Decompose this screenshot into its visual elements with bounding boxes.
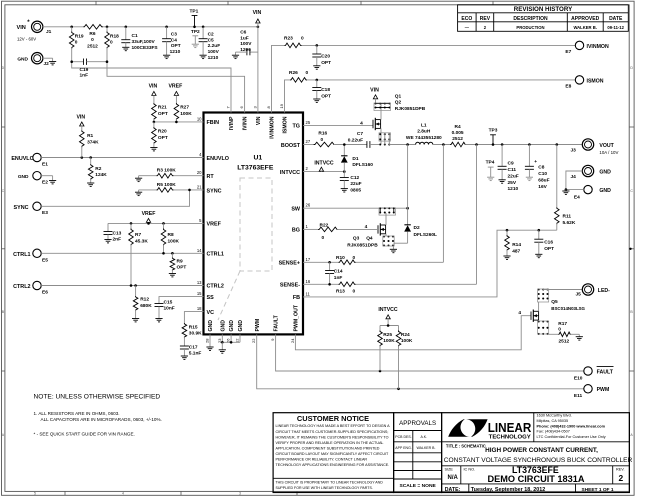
svg-text:09-11-12: 09-11-12 — [607, 25, 624, 30]
svg-text:IVINMON: IVINMON — [270, 116, 276, 138]
node VIN flag above R21 — [149, 84, 158, 96]
svg-text:R4: R4 — [455, 124, 461, 130]
svg-text:R15: R15 — [189, 324, 198, 330]
svg-text:14: 14 — [197, 248, 202, 253]
capacitor C9 C11 22uF output — [498, 145, 519, 193]
svg-text:1nF: 1nF — [334, 275, 343, 281]
ground at pins 23 26 12 — [219, 349, 226, 351]
svg-text:A.K.: A.K. — [421, 435, 428, 439]
svg-text:22uF: 22uF — [508, 173, 519, 179]
capacitor C19 1nF — [70, 59, 108, 79]
svg-text:R20: R20 — [158, 129, 167, 135]
svg-text:THIS CIRCUIT IS PROPRIETARY TO: THIS CIRCUIT IS PROPRIETARY TO LINEAR TE… — [276, 481, 384, 485]
wire VREF net — [108, 222, 204, 224]
svg-text:1nF: 1nF — [80, 73, 89, 79]
svg-text:C14: C14 — [334, 269, 343, 275]
svg-text:J1: J1 — [46, 29, 52, 35]
svg-text:* - SEE QUICK START GUIDE FOR: * - SEE QUICK START GUIDE FOR VIN RANGE. — [34, 431, 135, 436]
capacitor C16 OPT — [534, 230, 554, 254]
svg-text:APPROVALS: APPROVALS — [399, 420, 436, 427]
svg-text:DATE:: DATE: — [445, 487, 461, 493]
svg-text:Phone: (408)432-1900 www.line: Phone: (408)432-1900 www.linear.com — [537, 424, 606, 428]
svg-text:GND: GND — [18, 174, 29, 180]
svg-text:OPT: OPT — [321, 60, 331, 66]
resistor R13 0 — [336, 282, 356, 295]
wire PWM net — [257, 334, 584, 388]
testpoint TP3 — [489, 127, 498, 144]
resistor R19 — [69, 27, 84, 49]
wire GND pin 28 — [209, 334, 211, 347]
svg-text:ECO: ECO — [461, 16, 472, 22]
svg-text:VREF: VREF — [168, 84, 182, 90]
svg-text:26: 26 — [306, 203, 311, 208]
resistor R7 45.3K — [129, 223, 149, 245]
resistor R20 OPT — [152, 122, 168, 148]
ground at R9 — [169, 273, 176, 275]
terminal E8 ISMON — [565, 76, 603, 90]
svg-text:LED-: LED- — [598, 288, 610, 294]
node INTVCC flag above R25 R24 — [378, 307, 398, 319]
svg-text:25: 25 — [306, 120, 311, 125]
svg-text:IVINN: IVINN — [243, 116, 249, 130]
wire IVINP kelvin sense — [72, 48, 231, 113]
resistor R23 0 — [284, 36, 304, 48]
svg-text:INTVCC: INTVCC — [314, 161, 334, 167]
svg-text:100V: 100V — [240, 41, 252, 47]
svg-text:4: 4 — [360, 121, 363, 127]
svg-text:20: 20 — [197, 170, 202, 175]
svg-text:0: 0 — [306, 70, 309, 76]
resistor R18 — [105, 27, 119, 49]
svg-text:FAULT: FAULT — [597, 369, 614, 375]
svg-text:CONSTANT VOLTAGE SYNCHRONOUS B: CONSTANT VOLTAGE SYNCHRONOUS BUCK CONTRO… — [444, 457, 633, 464]
svg-text:TECHNOLOGY APPLICATIONS ENGINE: TECHNOLOGY APPLICATIONS ENGINEERING FOR … — [276, 463, 390, 467]
Linear Technology logo — [448, 419, 532, 440]
svg-text:NOTE: UNLESS OTHERWISE SPECIFI: NOTE: UNLESS OTHERWISE SPECIFIED — [34, 393, 161, 400]
resistor R26 0 — [289, 70, 309, 82]
svg-text:2.2uF: 2.2uF — [208, 43, 221, 49]
svg-text:R21: R21 — [158, 105, 167, 111]
diode D2 DFLS260L freewheel — [404, 225, 437, 243]
ground at J4 E4 — [565, 190, 567, 191]
wire GND pins 23 26 12 — [221, 334, 223, 342]
svg-text:100K: 100K — [168, 238, 180, 244]
svg-text:CIRCUIT THAT MEETS CUSTOMER-SU: CIRCUIT THAT MEETS CUSTOMER-SUPPLIED SPE… — [276, 430, 389, 434]
node VREF flag at pin 5 — [142, 211, 156, 223]
svg-text:25V: 25V — [508, 180, 517, 186]
svg-text:APPLICATION. COMPONENT SUBSTI: APPLICATION. COMPONENT SUBSTITUTION AND … — [276, 446, 380, 450]
svg-text:C19: C19 — [80, 67, 89, 73]
svg-text:E5: E5 — [42, 257, 48, 263]
svg-text:30.9K: 30.9K — [189, 331, 202, 337]
wire VIN pin to bus — [257, 23, 259, 113]
ground at R12 — [132, 318, 139, 320]
ground at R2 — [87, 182, 94, 184]
svg-text:RJK0851DPB: RJK0851DPB — [395, 106, 426, 112]
svg-text:J3: J3 — [571, 147, 577, 153]
terminal E3 SYNC — [14, 202, 49, 216]
capacitor C1 33uF input bulk — [121, 27, 158, 51]
svg-text:16V: 16V — [538, 184, 547, 190]
svg-text:VOUT: VOUT — [599, 143, 614, 149]
capacitor C14 1nF sense filter — [325, 262, 343, 284]
svg-text:FBIN: FBIN — [207, 120, 220, 126]
svg-text:0: 0 — [75, 40, 78, 46]
svg-text:J2: J2 — [44, 61, 50, 67]
ground at C3 C4 — [163, 54, 170, 56]
wire ENUVLO net — [41, 157, 203, 159]
svg-text:100K: 100K — [383, 338, 395, 344]
svg-text:R1: R1 — [87, 133, 93, 139]
svg-text:E1: E1 — [42, 161, 48, 167]
ground at C1 — [122, 46, 129, 48]
wire VOUT rail — [465, 144, 582, 146]
ground at E2 — [49, 180, 56, 182]
svg-text:REV: REV — [480, 16, 491, 22]
svg-text:L1: L1 — [421, 122, 427, 128]
ground at C17 — [181, 355, 188, 357]
svg-text:27: 27 — [306, 139, 311, 144]
svg-text:Fax: (408)434-0507: Fax: (408)434-0507 — [537, 430, 570, 434]
wire Q5 source pins to R17 — [538, 320, 540, 322]
svg-text:R9: R9 — [177, 258, 183, 264]
svg-text:5: 5 — [34, 492, 36, 496]
resistor R6 input shunt — [83, 25, 103, 50]
svg-text:DATE: DATE — [609, 16, 623, 22]
svg-text:OPT: OPT — [177, 265, 187, 271]
svg-text:R22: R22 — [320, 223, 329, 229]
svg-text:PWM_OUT: PWM_OUT — [294, 304, 300, 331]
svg-text:R5 100K: R5 100K — [157, 182, 176, 188]
resistor R10 0 — [336, 255, 356, 264]
svg-text:D1: D1 — [352, 156, 358, 162]
capacitor C8 C10 68uF output polarized — [525, 145, 550, 190]
svg-text:0: 0 — [558, 326, 561, 332]
svg-text:C18: C18 — [321, 87, 330, 93]
svg-text:VIN: VIN — [149, 84, 158, 90]
terminal E1 ENUVLO — [11, 153, 48, 167]
svg-text:C8: C8 — [538, 165, 544, 171]
node VIN flag above R1 — [76, 115, 85, 126]
terminal E5 CTRL1 — [13, 249, 48, 263]
svg-text:HOWEVER, IT REMAINS THE CUSTOM: HOWEVER, IT REMAINS THE CUSTOMER'S RESPO… — [276, 435, 389, 439]
capacitor C3 C4 OPT — [162, 27, 181, 55]
svg-text:CTRL1: CTRL1 — [13, 252, 30, 258]
svg-text:R2: R2 — [95, 166, 101, 172]
ground at TP2 — [192, 43, 199, 45]
resistor R9 OPT — [170, 253, 186, 273]
title block — [442, 413, 630, 493]
svg-text:0: 0 — [91, 37, 94, 43]
svg-text:U1: U1 — [253, 155, 262, 162]
connector J4 GND jack — [571, 165, 612, 180]
svg-text:R7: R7 — [135, 232, 141, 238]
svg-text:C1: C1 — [132, 33, 138, 39]
capacitor C15 10nF at SS — [155, 297, 204, 319]
capacitor C12 22uF INTVCC — [340, 172, 362, 194]
svg-text:R17: R17 — [558, 321, 567, 327]
svg-text:1630 McCarthy Blvd.: 1630 McCarthy Blvd. — [537, 414, 572, 418]
capacitor C13 2nF — [104, 223, 122, 242]
ground at R3 — [138, 176, 140, 179]
svg-text:SCALE = NONE: SCALE = NONE — [399, 483, 436, 489]
svg-text:VERIFY PROPER AND RELIABLE OPE: VERIFY PROPER AND RELIABLE OPERATION IN … — [276, 441, 384, 445]
node VREF flag above R27 — [168, 84, 182, 96]
svg-text:C3: C3 — [171, 32, 177, 38]
wire SYNC net — [41, 190, 189, 206]
svg-text:PWM: PWM — [597, 387, 610, 393]
svg-text:OPT: OPT — [158, 111, 168, 117]
svg-text:RJK0851DPB: RJK0851DPB — [347, 243, 378, 249]
wire Q3 Q4 source pins to ground node — [385, 234, 387, 236]
resistor R27 100K — [174, 95, 192, 122]
wire FAULT net — [276, 334, 584, 371]
svg-text:45.3K: 45.3K — [135, 238, 148, 244]
transistor Q3 Q4 RJK0851DPB low-side MOSFET — [347, 223, 385, 248]
svg-text:2.8uH: 2.8uH — [417, 129, 431, 135]
svg-text:R3 100K: R3 100K — [157, 168, 176, 174]
approvals box — [394, 413, 442, 493]
svg-text:CTRL1: CTRL1 — [207, 251, 224, 257]
svg-text:RT: RT — [207, 174, 215, 180]
svg-text:E3: E3 — [42, 210, 48, 216]
wire Q5 drain pins to LED- line — [538, 302, 540, 311]
svg-text:Q2: Q2 — [395, 100, 402, 106]
terminal E6 CTRL2 — [13, 281, 48, 295]
svg-text:100K: 100K — [401, 338, 413, 344]
svg-text:10: 10 — [197, 116, 202, 121]
svg-text:374K: 374K — [87, 139, 99, 145]
svg-text:TG: TG — [293, 124, 301, 130]
title block part number — [445, 465, 625, 484]
svg-text:Q4: Q4 — [366, 235, 373, 241]
svg-text:33uF,100V: 33uF,100V — [132, 39, 156, 45]
terminal E4 GND — [574, 185, 611, 200]
node INTVCC flag on pin 2 wire — [314, 161, 334, 172]
svg-text:18: 18 — [197, 306, 202, 311]
svg-text:100K: 100K — [180, 111, 192, 117]
testpoint TP1 — [189, 9, 198, 27]
svg-text:22uF: 22uF — [350, 181, 361, 187]
svg-text:LTC Confidential-For Customer: LTC Confidential-For Customer Use Only — [537, 435, 606, 439]
connector J3 VOUT jack — [571, 139, 619, 155]
capacitor C18 OPT — [312, 80, 331, 100]
wire CTRL1 net — [41, 252, 203, 254]
svg-text:487: 487 — [512, 249, 520, 255]
notes text block — [34, 393, 162, 436]
svg-text:C20: C20 — [321, 53, 330, 59]
svg-text:1. ALL RESISTORS ARE IN OHMS,: 1. ALL RESISTORS ARE IN OHMS, 0603. — [34, 411, 120, 416]
svg-text:R18: R18 — [110, 34, 119, 40]
svg-text:ENUVLO: ENUVLO — [11, 156, 33, 162]
wire INTVCC pin net — [303, 171, 344, 173]
svg-text:IC NO.: IC NO. — [464, 467, 476, 471]
svg-text:Tuesday, September 18, 2012: Tuesday, September 18, 2012 — [471, 487, 545, 493]
svg-text:E2: E2 — [42, 179, 48, 185]
svg-text:ISMON: ISMON — [283, 116, 289, 133]
svg-text:1210: 1210 — [170, 49, 181, 55]
svg-text:2nF: 2nF — [113, 237, 122, 243]
svg-text:100V: 100V — [208, 49, 220, 55]
svg-text:GND: GND — [17, 57, 28, 63]
resistor R11 5.62K — [555, 145, 576, 231]
title block address text — [537, 414, 606, 439]
ground at C16 — [535, 253, 542, 255]
svg-text:SENSE-: SENSE- — [280, 283, 300, 289]
ground at C6 — [232, 54, 239, 56]
svg-text:GND: GND — [238, 320, 244, 332]
ground at R5 — [138, 190, 140, 192]
resistor R25 100K pullup — [378, 326, 396, 372]
svg-text:2: 2 — [618, 473, 623, 483]
svg-text:SENSE+: SENSE+ — [279, 261, 300, 267]
svg-text:C11: C11 — [508, 167, 517, 173]
svg-text:3: 3 — [239, 492, 241, 496]
svg-text:0805: 0805 — [350, 187, 361, 193]
svg-text:0: 0 — [353, 289, 356, 295]
svg-text:17: 17 — [306, 257, 311, 262]
svg-text:TP3: TP3 — [489, 127, 498, 133]
transistor Q1 Q2 RJK0851DPB high-side MOSFET — [373, 93, 426, 130]
terminal E10 FAULT — [574, 367, 614, 382]
ground at C9 C11 — [499, 179, 506, 181]
svg-text:E7: E7 — [565, 49, 571, 55]
svg-text:R25: R25 — [383, 332, 392, 338]
svg-text:SS: SS — [207, 295, 215, 301]
svg-text:1uF: 1uF — [240, 35, 249, 41]
transistor Q5 BSC014N03LSG — [531, 299, 586, 322]
svg-text:DESCRIPTION: DESCRIPTION — [513, 16, 548, 22]
svg-text:IVINP: IVINP — [229, 116, 235, 130]
svg-text:VIN: VIN — [256, 116, 262, 125]
svg-text:C2: C2 — [208, 32, 214, 38]
svg-text:0: 0 — [353, 255, 356, 261]
svg-text:13: 13 — [197, 280, 202, 285]
svg-text:R24: R24 — [401, 332, 410, 338]
svg-text:PCB DES.: PCB DES. — [395, 435, 411, 439]
svg-text:IVINMON: IVINMON — [587, 44, 609, 50]
svg-text:C12: C12 — [350, 175, 359, 181]
customer notice box — [273, 413, 394, 493]
wire ISMON net — [285, 80, 291, 113]
svg-text:VREF: VREF — [142, 211, 156, 217]
svg-text:C7: C7 — [357, 131, 363, 137]
svg-text:0: 0 — [322, 235, 325, 241]
svg-text:LINEAR: LINEAR — [488, 420, 532, 435]
resistor R2 124K — [88, 158, 107, 184]
wire Q3 Q4 drain pins to SW — [385, 213, 387, 225]
resistor R3 100K at RT — [139, 168, 204, 178]
svg-text:24: 24 — [290, 338, 295, 343]
testpoint TP2 — [191, 29, 200, 44]
svg-text:GND: GND — [208, 320, 214, 332]
svg-text:VIN: VIN — [253, 10, 262, 16]
ground at pin 28 — [206, 346, 213, 348]
svg-text:21: 21 — [197, 184, 202, 189]
svg-text:ISMON: ISMON — [587, 79, 604, 85]
terminal E2 GND — [18, 172, 48, 186]
svg-text:SHEET 1 OF 1: SHEET 1 OF 1 — [582, 487, 614, 493]
wire VC net — [184, 312, 203, 323]
svg-text:GND: GND — [599, 169, 611, 175]
ground at C13 — [104, 239, 111, 241]
wire SENSE- net — [303, 283, 339, 285]
svg-text:680K: 680K — [140, 303, 152, 309]
svg-text:ALL CAPACITORS ARE IN MICROFAR: ALL CAPACITORS ARE IN MICROFARADS, 0603,… — [41, 417, 162, 422]
wire VIN input bus — [43, 26, 83, 28]
resistor R8 100K — [161, 223, 179, 253]
node VIN flag above Q1 Q2 — [370, 88, 379, 99]
svg-text:R26: R26 — [289, 70, 298, 76]
svg-text:Q3: Q3 — [353, 235, 360, 241]
svg-text:R23: R23 — [284, 36, 293, 42]
svg-text:R12: R12 — [140, 297, 149, 303]
svg-text:0: 0 — [301, 36, 304, 42]
wire Q1 Q2 drain pins to VIN — [375, 99, 377, 104]
title block date row — [445, 487, 614, 493]
svg-text:E4: E4 — [574, 194, 580, 200]
svg-text:R27: R27 — [180, 105, 189, 111]
svg-text:CTRL2: CTRL2 — [207, 284, 224, 290]
svg-text:CTRL2: CTRL2 — [13, 284, 30, 290]
svg-text:R8: R8 — [168, 232, 174, 238]
svg-text:D2: D2 — [414, 225, 420, 231]
svg-text:TP2: TP2 — [191, 29, 200, 35]
ground at R14 — [503, 255, 510, 257]
svg-text:VREF: VREF — [207, 222, 222, 228]
svg-text:VIN: VIN — [76, 115, 85, 121]
connector J5 LED- jack — [576, 284, 611, 298]
svg-text:R6: R6 — [89, 31, 95, 37]
connector J1 VIN input jack — [16, 20, 51, 41]
svg-text:10nF: 10nF — [164, 306, 175, 312]
inductor L1 2.8uH — [406, 122, 442, 144]
wire SW node to inductor — [389, 144, 415, 146]
svg-text:HIGH POWER CONSTANT CURRENT,: HIGH POWER CONSTANT CURRENT, — [485, 447, 598, 454]
svg-text:BG: BG — [292, 228, 300, 234]
wire SENSE+ net — [303, 261, 339, 263]
svg-text:DFLS260L: DFLS260L — [414, 232, 438, 238]
svg-text:2512: 2512 — [559, 338, 570, 344]
svg-text:Q1: Q1 — [395, 93, 402, 99]
svg-text:FAULT: FAULT — [274, 314, 280, 331]
svg-text:PERFORMANCE OR RELIABILITY. C: PERFORMANCE OR RELIABILITY. CONTACT LINE… — [276, 458, 368, 462]
revision history table — [458, 5, 629, 32]
svg-text:Q5: Q5 — [551, 299, 558, 305]
terminal E7 IVINMON — [565, 41, 609, 55]
svg-text:19: 19 — [279, 103, 284, 108]
wire INTVCC to pullups — [387, 319, 389, 326]
svg-text:C5: C5 — [208, 37, 214, 43]
svg-text:VIN: VIN — [370, 88, 379, 94]
svg-text:E8: E8 — [565, 84, 571, 90]
svg-text:C17: C17 — [189, 344, 198, 350]
svg-text:WALKER B.: WALKER B. — [417, 446, 436, 450]
ground at J2 — [52, 58, 54, 61]
svg-text:SUPPLIED FOR USE WITH LINEAR T: SUPPLIED FOR USE WITH LINEAR TECHNOLOGY … — [276, 486, 373, 490]
wire IVINMON net — [272, 45, 285, 112]
svg-text:C6: C6 — [240, 30, 246, 36]
svg-text:100CE33FS: 100CE33FS — [132, 45, 159, 51]
svg-text:R13: R13 — [336, 289, 345, 295]
ground at C15 — [155, 318, 162, 320]
wire inductor to R4 — [433, 144, 450, 146]
wire J4 to E4 ground — [566, 171, 583, 190]
title block schematic title — [444, 444, 633, 464]
wire R7 to CTRL2 — [130, 245, 132, 286]
svg-text:FB: FB — [293, 295, 300, 301]
testpoint TP4 — [486, 159, 495, 177]
